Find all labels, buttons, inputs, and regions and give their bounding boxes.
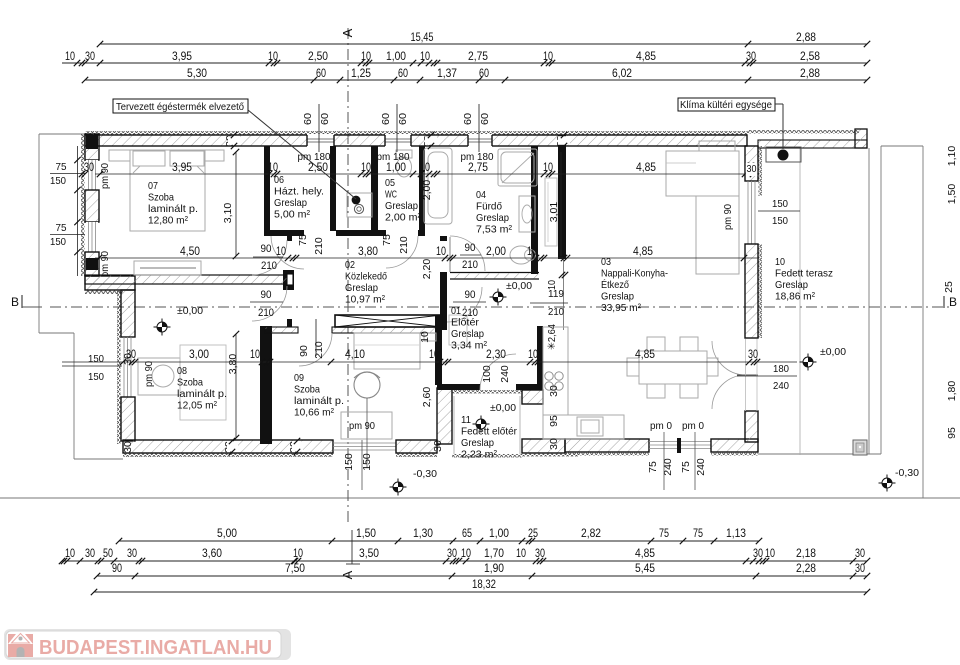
svg-text:75: 75 bbox=[297, 234, 309, 246]
svg-text:5,00: 5,00 bbox=[217, 528, 237, 540]
svg-text:BUDAPEST.INGATLAN.HU: BUDAPEST.INGATLAN.HU bbox=[39, 637, 272, 659]
svg-text:33,95 m²: 33,95 m² bbox=[601, 302, 641, 314]
svg-text:240: 240 bbox=[695, 458, 707, 476]
svg-text:2,82: 2,82 bbox=[581, 528, 601, 540]
svg-text:210: 210 bbox=[313, 341, 325, 359]
svg-text:pm 90: pm 90 bbox=[722, 204, 734, 230]
svg-text:4,10: 4,10 bbox=[345, 349, 365, 361]
svg-text:240: 240 bbox=[773, 380, 789, 392]
svg-text:WC: WC bbox=[385, 189, 397, 201]
svg-text:3,60: 3,60 bbox=[202, 548, 222, 560]
svg-text:3,00: 3,00 bbox=[189, 349, 209, 361]
svg-text:10: 10 bbox=[293, 548, 303, 560]
svg-text:A: A bbox=[340, 28, 355, 37]
svg-text:1,13: 1,13 bbox=[726, 528, 746, 540]
svg-text:3,80: 3,80 bbox=[227, 354, 239, 375]
svg-text:1,10: 1,10 bbox=[946, 146, 958, 167]
svg-text:2,28: 2,28 bbox=[796, 563, 816, 575]
svg-text:Greslap: Greslap bbox=[274, 197, 307, 209]
svg-text:50: 50 bbox=[103, 548, 113, 560]
svg-text:10: 10 bbox=[775, 256, 785, 268]
svg-text:2,00 m²: 2,00 m² bbox=[385, 212, 421, 224]
svg-text:30: 30 bbox=[85, 548, 95, 560]
svg-text:2,00: 2,00 bbox=[421, 180, 433, 201]
svg-text:1,30: 1,30 bbox=[413, 528, 433, 540]
svg-text:2,75: 2,75 bbox=[468, 162, 488, 174]
svg-text:5,00 m²: 5,00 m² bbox=[274, 209, 310, 221]
svg-text:pm 90: pm 90 bbox=[99, 163, 111, 189]
svg-text:laminált p.: laminált p. bbox=[148, 203, 198, 215]
svg-text:100: 100 bbox=[481, 365, 493, 383]
svg-text:150: 150 bbox=[772, 215, 788, 227]
svg-text:30: 30 bbox=[746, 51, 756, 63]
svg-text:3,95: 3,95 bbox=[172, 162, 192, 174]
svg-text:65: 65 bbox=[462, 528, 472, 540]
svg-text:1,37: 1,37 bbox=[437, 68, 457, 80]
svg-text:pm 0: pm 0 bbox=[682, 420, 704, 432]
svg-text:10: 10 bbox=[420, 51, 430, 63]
svg-text:5,30: 5,30 bbox=[187, 68, 207, 80]
svg-text:95: 95 bbox=[548, 415, 560, 427]
svg-text:90: 90 bbox=[465, 289, 476, 301]
svg-text:30: 30 bbox=[432, 440, 444, 452]
svg-text:12,05 m²: 12,05 m² bbox=[177, 400, 217, 412]
svg-text:10: 10 bbox=[420, 162, 430, 174]
svg-text:Szoba: Szoba bbox=[177, 377, 203, 389]
svg-text:Közlekedő: Közlekedő bbox=[345, 271, 387, 283]
svg-text:18,86 m²: 18,86 m² bbox=[775, 291, 815, 303]
svg-text:Előtér: Előtér bbox=[451, 317, 480, 329]
svg-text:-0,30: -0,30 bbox=[895, 467, 919, 479]
svg-text:10: 10 bbox=[527, 246, 537, 258]
svg-text:±0,00: ±0,00 bbox=[177, 305, 203, 317]
svg-text:210: 210 bbox=[462, 259, 478, 271]
svg-text:2,58: 2,58 bbox=[800, 51, 820, 63]
svg-text:10,66 m²: 10,66 m² bbox=[294, 407, 334, 419]
svg-text:B: B bbox=[949, 295, 957, 309]
svg-text:75: 75 bbox=[381, 234, 393, 246]
svg-text:10: 10 bbox=[268, 51, 278, 63]
svg-text:10: 10 bbox=[361, 51, 371, 63]
svg-text:Greslap: Greslap bbox=[775, 279, 808, 291]
svg-text:60: 60 bbox=[397, 113, 409, 125]
svg-text:Fedett előtér: Fedett előtér bbox=[461, 426, 517, 438]
svg-text:10: 10 bbox=[65, 548, 75, 560]
svg-text:1,00: 1,00 bbox=[489, 528, 509, 540]
svg-text:Szoba: Szoba bbox=[148, 192, 174, 204]
svg-text:18,32: 18,32 bbox=[472, 579, 496, 591]
svg-text:210: 210 bbox=[261, 260, 277, 272]
svg-text:pm 180: pm 180 bbox=[461, 151, 494, 163]
svg-text:60: 60 bbox=[316, 68, 326, 80]
svg-text:90: 90 bbox=[261, 289, 272, 301]
svg-text:60: 60 bbox=[319, 113, 331, 125]
svg-text:09: 09 bbox=[294, 372, 304, 384]
svg-text:4,50: 4,50 bbox=[180, 246, 200, 258]
svg-text:1,70: 1,70 bbox=[484, 548, 504, 560]
svg-text:210: 210 bbox=[258, 307, 274, 319]
svg-text:10: 10 bbox=[419, 331, 431, 343]
svg-text:60: 60 bbox=[462, 113, 474, 125]
svg-text:3,50: 3,50 bbox=[359, 548, 379, 560]
svg-text:3,01: 3,01 bbox=[548, 202, 560, 223]
svg-text:laminált p.: laminált p. bbox=[177, 388, 227, 400]
svg-text:3,95: 3,95 bbox=[172, 51, 192, 63]
svg-text:-0,30: -0,30 bbox=[413, 468, 437, 480]
svg-text:05: 05 bbox=[385, 177, 395, 189]
svg-text:150: 150 bbox=[88, 353, 104, 365]
svg-text:30: 30 bbox=[127, 548, 137, 560]
svg-text:A: A bbox=[340, 570, 355, 579]
svg-text:5,45: 5,45 bbox=[635, 563, 655, 575]
svg-text:150: 150 bbox=[88, 371, 104, 383]
svg-text:10: 10 bbox=[543, 162, 553, 174]
svg-text:10,97 m²: 10,97 m² bbox=[345, 294, 385, 306]
svg-text:75: 75 bbox=[647, 461, 659, 473]
svg-text:Házt. hely.: Házt. hely. bbox=[274, 186, 324, 198]
svg-text:2,88: 2,88 bbox=[796, 32, 816, 44]
svg-text:150: 150 bbox=[343, 453, 355, 471]
svg-text:30: 30 bbox=[753, 548, 763, 560]
svg-text:Klíma kültéri egysége: Klíma kültéri egysége bbox=[680, 99, 772, 111]
svg-text:04: 04 bbox=[476, 189, 486, 201]
svg-text:60: 60 bbox=[302, 113, 314, 125]
svg-text:7,53 m²: 7,53 m² bbox=[476, 224, 512, 236]
svg-text:2,00: 2,00 bbox=[486, 246, 506, 258]
svg-text:90: 90 bbox=[298, 345, 310, 357]
svg-text:180: 180 bbox=[773, 363, 789, 375]
svg-text:60: 60 bbox=[479, 68, 489, 80]
svg-text:2,50: 2,50 bbox=[308, 51, 328, 63]
svg-text:laminált p.: laminált p. bbox=[294, 395, 344, 407]
svg-text:pm 90: pm 90 bbox=[99, 251, 111, 277]
svg-text:2,23 m²: 2,23 m² bbox=[461, 449, 497, 461]
svg-text:Greslap: Greslap bbox=[461, 437, 494, 449]
svg-text:1,25: 1,25 bbox=[351, 68, 371, 80]
svg-text:10: 10 bbox=[765, 548, 775, 560]
svg-text:75: 75 bbox=[56, 222, 67, 234]
svg-text:1,50: 1,50 bbox=[946, 184, 958, 205]
svg-text:95: 95 bbox=[946, 427, 958, 439]
svg-text:10: 10 bbox=[528, 349, 538, 361]
svg-text:30: 30 bbox=[855, 563, 865, 575]
svg-text:2,50: 2,50 bbox=[308, 162, 328, 174]
svg-text:30: 30 bbox=[84, 162, 94, 174]
svg-text:30: 30 bbox=[122, 441, 134, 453]
svg-text:Szoba: Szoba bbox=[294, 384, 320, 396]
svg-text:2,20: 2,20 bbox=[421, 259, 433, 280]
svg-text:25: 25 bbox=[528, 528, 538, 540]
svg-text:Nappali-Konyha-: Nappali-Konyha- bbox=[601, 268, 668, 280]
svg-text:B: B bbox=[11, 295, 19, 309]
svg-text:Tervezett égéstermék elvezető: Tervezett égéstermék elvezető bbox=[116, 101, 244, 113]
svg-text:Greslap: Greslap bbox=[345, 282, 378, 294]
svg-text:10: 10 bbox=[436, 246, 446, 258]
svg-text:10: 10 bbox=[546, 280, 558, 290]
svg-text:✳2,64: ✳2,64 bbox=[546, 324, 558, 350]
svg-text:06: 06 bbox=[274, 174, 284, 186]
svg-text:25: 25 bbox=[943, 281, 955, 293]
svg-text:2,18: 2,18 bbox=[796, 548, 816, 560]
svg-text:02: 02 bbox=[345, 259, 355, 271]
svg-text:210: 210 bbox=[548, 306, 564, 318]
svg-text:08: 08 bbox=[177, 365, 187, 377]
svg-text:01: 01 bbox=[451, 305, 461, 317]
svg-text:4,85: 4,85 bbox=[635, 349, 655, 361]
svg-text:10: 10 bbox=[361, 162, 371, 174]
svg-text:Fedett terasz: Fedett terasz bbox=[775, 268, 833, 280]
svg-text:pm 90: pm 90 bbox=[349, 420, 375, 432]
svg-text:1,50: 1,50 bbox=[356, 528, 376, 540]
svg-text:75: 75 bbox=[659, 528, 669, 540]
svg-text:2,60: 2,60 bbox=[421, 387, 433, 408]
svg-text:Greslap: Greslap bbox=[476, 212, 509, 224]
svg-text:30: 30 bbox=[85, 51, 95, 63]
svg-text:6,02: 6,02 bbox=[612, 68, 632, 80]
svg-text:30: 30 bbox=[748, 349, 758, 361]
svg-text:90: 90 bbox=[112, 563, 122, 575]
svg-text:4,85: 4,85 bbox=[635, 548, 655, 560]
svg-text:10: 10 bbox=[250, 349, 260, 361]
svg-text:30: 30 bbox=[122, 353, 134, 365]
svg-text:60: 60 bbox=[380, 113, 392, 125]
svg-text:1,00: 1,00 bbox=[386, 162, 406, 174]
svg-text:pm 0: pm 0 bbox=[650, 420, 672, 432]
svg-text:Étkező: Étkező bbox=[601, 278, 629, 291]
svg-text:11: 11 bbox=[461, 414, 471, 426]
svg-text:Greslap: Greslap bbox=[451, 328, 484, 340]
svg-text:Fürdő: Fürdő bbox=[476, 201, 502, 213]
svg-text:Greslap: Greslap bbox=[601, 291, 634, 303]
svg-text:±0,00: ±0,00 bbox=[490, 402, 516, 414]
svg-text:10: 10 bbox=[276, 246, 286, 258]
svg-text:60: 60 bbox=[479, 113, 491, 125]
svg-text:90: 90 bbox=[261, 243, 272, 255]
svg-text:pm 180: pm 180 bbox=[377, 151, 410, 163]
svg-text:15,45: 15,45 bbox=[411, 32, 434, 44]
svg-text:±0,00: ±0,00 bbox=[820, 346, 846, 358]
svg-text:12,80 m²: 12,80 m² bbox=[148, 215, 188, 227]
svg-text:7,50: 7,50 bbox=[285, 563, 305, 575]
svg-text:10: 10 bbox=[429, 349, 439, 361]
svg-text:75: 75 bbox=[693, 528, 703, 540]
svg-text:±0,00: ±0,00 bbox=[506, 280, 532, 292]
svg-text:10: 10 bbox=[268, 162, 278, 174]
svg-text:3,80: 3,80 bbox=[358, 246, 378, 258]
svg-text:07: 07 bbox=[148, 180, 158, 192]
svg-text:10: 10 bbox=[543, 51, 553, 63]
svg-text:pm 180: pm 180 bbox=[298, 151, 331, 163]
svg-text:10: 10 bbox=[516, 548, 526, 560]
svg-text:150: 150 bbox=[50, 175, 66, 187]
svg-text:75: 75 bbox=[56, 161, 67, 173]
svg-text:4,85: 4,85 bbox=[636, 51, 656, 63]
svg-text:Greslap: Greslap bbox=[385, 200, 418, 212]
svg-text:3,10: 3,10 bbox=[222, 203, 234, 224]
svg-text:150: 150 bbox=[361, 453, 373, 471]
svg-text:210: 210 bbox=[313, 237, 325, 255]
svg-text:60: 60 bbox=[398, 68, 408, 80]
svg-text:1,00: 1,00 bbox=[386, 51, 406, 63]
svg-text:30: 30 bbox=[855, 548, 865, 560]
svg-text:240: 240 bbox=[499, 365, 511, 383]
svg-text:3,34 m²: 3,34 m² bbox=[451, 340, 487, 352]
svg-text:150: 150 bbox=[50, 236, 66, 248]
svg-text:10: 10 bbox=[461, 548, 471, 560]
svg-text:75: 75 bbox=[680, 461, 692, 473]
svg-text:1,90: 1,90 bbox=[484, 563, 504, 575]
svg-text:30: 30 bbox=[548, 438, 560, 450]
svg-text:30: 30 bbox=[548, 385, 560, 397]
svg-text:30: 30 bbox=[447, 548, 457, 560]
svg-text:2,75: 2,75 bbox=[468, 51, 488, 63]
svg-text:2,30: 2,30 bbox=[486, 349, 506, 361]
svg-text:210: 210 bbox=[398, 236, 410, 254]
svg-text:4,85: 4,85 bbox=[633, 246, 653, 258]
svg-text:10: 10 bbox=[65, 51, 75, 63]
svg-text:2,88: 2,88 bbox=[800, 68, 820, 80]
svg-text:150: 150 bbox=[772, 198, 788, 210]
svg-text:30: 30 bbox=[747, 163, 757, 175]
svg-text:03: 03 bbox=[601, 256, 611, 268]
svg-text:4,85: 4,85 bbox=[636, 162, 656, 174]
svg-text:90: 90 bbox=[465, 242, 476, 254]
svg-text:pm 90: pm 90 bbox=[143, 361, 155, 387]
svg-text:30: 30 bbox=[535, 548, 545, 560]
svg-text:1,80: 1,80 bbox=[946, 381, 958, 402]
